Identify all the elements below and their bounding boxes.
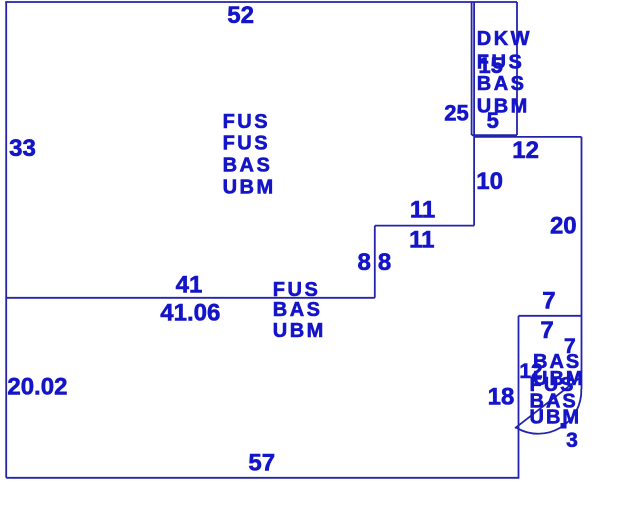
svg-text:25: 25	[444, 101, 468, 126]
wire DKW-box bottom edge	[472, 134, 517, 136]
svg-text:11: 11	[410, 197, 435, 224]
svg-text:UBM: UBM	[530, 407, 582, 429]
svg-text:10: 10	[476, 168, 503, 195]
svg-text:52: 52	[227, 2, 254, 29]
wire DKW-box right edge	[516, 2, 518, 135]
svg-text:FUS: FUS	[223, 133, 271, 155]
svg-text:20.02: 20.02	[7, 373, 67, 400]
wire parcel-A right edge	[471, 2, 473, 135]
svg-text:33: 33	[9, 135, 36, 162]
svg-text:UBM: UBM	[273, 320, 326, 342]
svg-text:DKW: DKW	[477, 28, 532, 50]
wire DKW-box left edge	[473, 2, 475, 226]
wire parcel-20 top edge	[474, 136, 581, 138]
node building marker square	[561, 423, 567, 429]
svg-text:57: 57	[248, 450, 275, 477]
svg-text:41: 41	[176, 271, 203, 298]
svg-text:3: 3	[566, 429, 578, 452]
wire small-box left edge	[518, 316, 520, 478]
wire boundary arc	[517, 389, 582, 434]
wire left boundary	[5, 2, 7, 478]
svg-text:11: 11	[409, 227, 434, 254]
wire stair vertical 8	[374, 226, 376, 298]
wire diagonal chord	[515, 377, 582, 429]
svg-text:7: 7	[540, 317, 553, 344]
wire small-box top edge	[519, 315, 582, 317]
svg-text:41.06: 41.06	[160, 299, 220, 326]
wire parcel-20 right edge	[581, 137, 583, 389]
svg-text:7: 7	[542, 287, 555, 314]
wire boundary 41	[6, 297, 375, 299]
svg-text:20: 20	[550, 213, 577, 240]
svg-text:FUS: FUS	[273, 279, 321, 301]
svg-text:BAS: BAS	[273, 299, 323, 321]
wire bottom boundary 57	[6, 477, 519, 479]
svg-text:BAS: BAS	[477, 73, 527, 95]
svg-text:12: 12	[512, 137, 539, 164]
svg-text:18: 18	[488, 384, 515, 411]
svg-text:8: 8	[378, 249, 391, 276]
wire top boundary	[5, 1, 517, 3]
svg-text:8: 8	[358, 249, 371, 276]
svg-text:UBM: UBM	[223, 176, 276, 198]
svg-text:FUS: FUS	[223, 111, 271, 133]
wire stair horizontal 11	[375, 225, 474, 227]
svg-text:UBM: UBM	[477, 96, 530, 118]
svg-text:BAS: BAS	[223, 155, 273, 177]
svg-text:FUS: FUS	[477, 51, 525, 73]
